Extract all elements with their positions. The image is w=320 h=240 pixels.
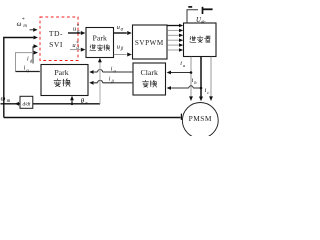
wire: theta up into Park transform bbox=[70, 96, 74, 104]
wire: phase c line from inverter to motor (grey) bbox=[209, 57, 213, 101]
wire: i_beta from Clark to Park with hop over theta riser bbox=[89, 80, 133, 84]
wire: i_b tap to Clark with hop over phase a bbox=[167, 86, 201, 90]
svg-text:*: * bbox=[22, 17, 25, 23]
wire: phase b line from inverter to motor bbox=[199, 57, 203, 102]
svg-text:β: β bbox=[120, 47, 124, 52]
block: inverter (ni bian qi) bbox=[184, 23, 217, 57]
wire: theta bus (bottom) bbox=[1, 103, 101, 105]
junction on speed feedback wire bbox=[33, 36, 36, 39]
svg-text:i: i bbox=[192, 78, 194, 84]
svg-text:m: m bbox=[7, 99, 11, 104]
node: i_c label bbox=[205, 88, 210, 95]
block: SVPWM bbox=[133, 25, 168, 59]
wire: u_beta from inverse Park to SVPWM (grey) bbox=[114, 53, 132, 57]
svg-text:c: c bbox=[207, 90, 209, 95]
block: Park transform bbox=[41, 65, 88, 96]
wire: i_q from Park transform to riser bbox=[16, 71, 40, 73]
encoder tick bbox=[180, 114, 182, 120]
svg-text:a: a bbox=[183, 63, 186, 68]
wire: DC link right leg bbox=[203, 8, 213, 10]
svg-text:d/dt: d/dt bbox=[23, 103, 31, 108]
node: ud* label bbox=[72, 41, 79, 51]
node: i_a label bbox=[180, 61, 186, 68]
wire: u_alpha from inverse Park to SVPWM bbox=[114, 31, 132, 35]
svg-text:SVPWM: SVPWM bbox=[135, 39, 164, 47]
svg-text:TD-: TD- bbox=[49, 29, 63, 38]
wire: uq* from controller to inverse Park bbox=[68, 31, 85, 35]
block: d/dt speed calculation bbox=[20, 96, 33, 108]
node: omega_m* label bbox=[17, 17, 28, 29]
svg-text:b: b bbox=[194, 80, 197, 85]
node: Udc label bbox=[196, 17, 206, 26]
node: i_b label bbox=[192, 78, 198, 85]
node: u_beta label bbox=[117, 43, 124, 52]
wire: i_alpha from Clark to Park with hop over theta riser bbox=[89, 70, 133, 74]
svg-text:α: α bbox=[114, 69, 117, 74]
wire: theta riser to inverse Park (grey) bbox=[98, 58, 102, 104]
node: i_beta label bbox=[109, 77, 115, 84]
block: Park inverse transform bbox=[86, 28, 114, 58]
wire: speed reference into controller bbox=[30, 28, 38, 32]
svg-text:d: d bbox=[76, 46, 79, 51]
svg-text:i: i bbox=[180, 61, 182, 67]
svg-text:d: d bbox=[30, 59, 33, 64]
svg-text:PMSM: PMSM bbox=[189, 114, 212, 123]
svg-text:α: α bbox=[121, 28, 124, 33]
svg-text:i: i bbox=[109, 77, 111, 83]
svg-text:i: i bbox=[205, 88, 207, 94]
wire: speed feedback (long horizontal into controller) bbox=[4, 36, 38, 118]
DC source plate long bbox=[202, 7, 204, 14]
node: uq* label bbox=[73, 25, 80, 35]
svg-text:i: i bbox=[24, 66, 26, 72]
svg-text:SVI: SVI bbox=[49, 40, 63, 49]
node: theta_e label bbox=[81, 97, 89, 107]
junction: theta branch to Park transform bbox=[71, 103, 74, 106]
node: TD-SVI text bbox=[49, 29, 63, 49]
svg-text:ω: ω bbox=[1, 95, 6, 102]
wire: motor shaft / encoder line bbox=[4, 117, 181, 119]
svg-text:θ: θ bbox=[81, 97, 85, 105]
svg-text:Park: Park bbox=[54, 68, 68, 77]
wire: ud* from controller to inverse Park (grey) bbox=[70, 48, 85, 52]
wire: phase a line from inverter to motor (grey) bbox=[189, 57, 193, 101]
node: omega_m feedback label bbox=[1, 95, 11, 104]
DC source plate short bbox=[188, 6, 192, 8]
node: i_q label bbox=[24, 66, 30, 73]
wire: DC link left leg bbox=[187, 10, 198, 23]
wires: six PWM gate signals to inverter bbox=[167, 24, 183, 28]
controller TD-SVI (red dashed box) bbox=[40, 17, 78, 61]
wire: i_q feedback into controller (grey) bbox=[16, 51, 39, 72]
node: i_alpha label bbox=[111, 67, 117, 74]
svg-text:i: i bbox=[27, 57, 29, 63]
node: i_d label bbox=[27, 57, 33, 64]
arrow out of d/dt block bbox=[15, 102, 19, 106]
wire: i_a tap to Clark bbox=[167, 71, 191, 75]
svg-text:ω: ω bbox=[17, 21, 22, 28]
svg-text:Clark: Clark bbox=[141, 68, 158, 77]
node: u_alpha label bbox=[117, 24, 124, 33]
motor: PMSM circle bbox=[182, 103, 218, 139]
svg-text:Park: Park bbox=[93, 33, 107, 42]
wire: i_d feedback into controller bbox=[33, 44, 38, 63]
svg-text:m: m bbox=[23, 24, 27, 29]
junction: phase a tap bbox=[190, 71, 193, 74]
junction: phase b tap bbox=[200, 87, 203, 90]
block: Clark transform bbox=[133, 63, 166, 95]
